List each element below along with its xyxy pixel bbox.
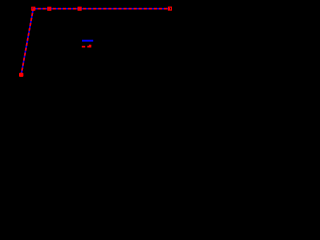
marker point 2 (elbow, open square) — [32, 7, 35, 10]
legend sample: blue solid line — [82, 40, 93, 42]
marker point 4 (open square over dash) — [78, 7, 81, 10]
series 2: red dashed line (rising segment) — [21, 9, 33, 75]
series 1: blue solid line — [21, 9, 170, 75]
marker point 5 (right end, open square) — [168, 7, 171, 10]
legend sample: red dash 1 — [82, 46, 85, 48]
marker point 3 (open square) — [48, 7, 51, 10]
marker point 1 (bottom, filled) — [19, 73, 23, 77]
legend sample: red dash 2 with marker bump — [87, 46, 91, 48]
series 2: red dashed line (plateau segment) — [33, 8, 170, 10]
